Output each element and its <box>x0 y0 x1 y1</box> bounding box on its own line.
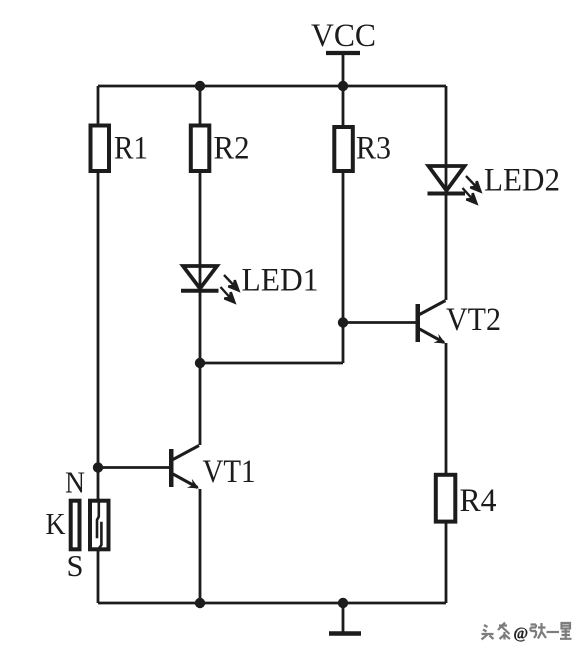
svg-text:LED1: LED1 <box>242 263 319 299</box>
svg-text:R2: R2 <box>214 131 250 167</box>
svg-text:LED2: LED2 <box>484 163 560 199</box>
svg-text:K: K <box>46 506 67 541</box>
svg-text:S: S <box>67 548 84 583</box>
svg-text:VCC: VCC <box>311 18 376 54</box>
svg-text:@: @ <box>513 625 527 642</box>
svg-text:VT1: VT1 <box>203 454 256 490</box>
svg-text:R3: R3 <box>356 131 391 167</box>
svg-text:R1: R1 <box>114 131 148 167</box>
svg-text:R4: R4 <box>460 483 497 519</box>
svg-text:VT2: VT2 <box>446 302 501 338</box>
svg-text:N: N <box>65 465 85 500</box>
